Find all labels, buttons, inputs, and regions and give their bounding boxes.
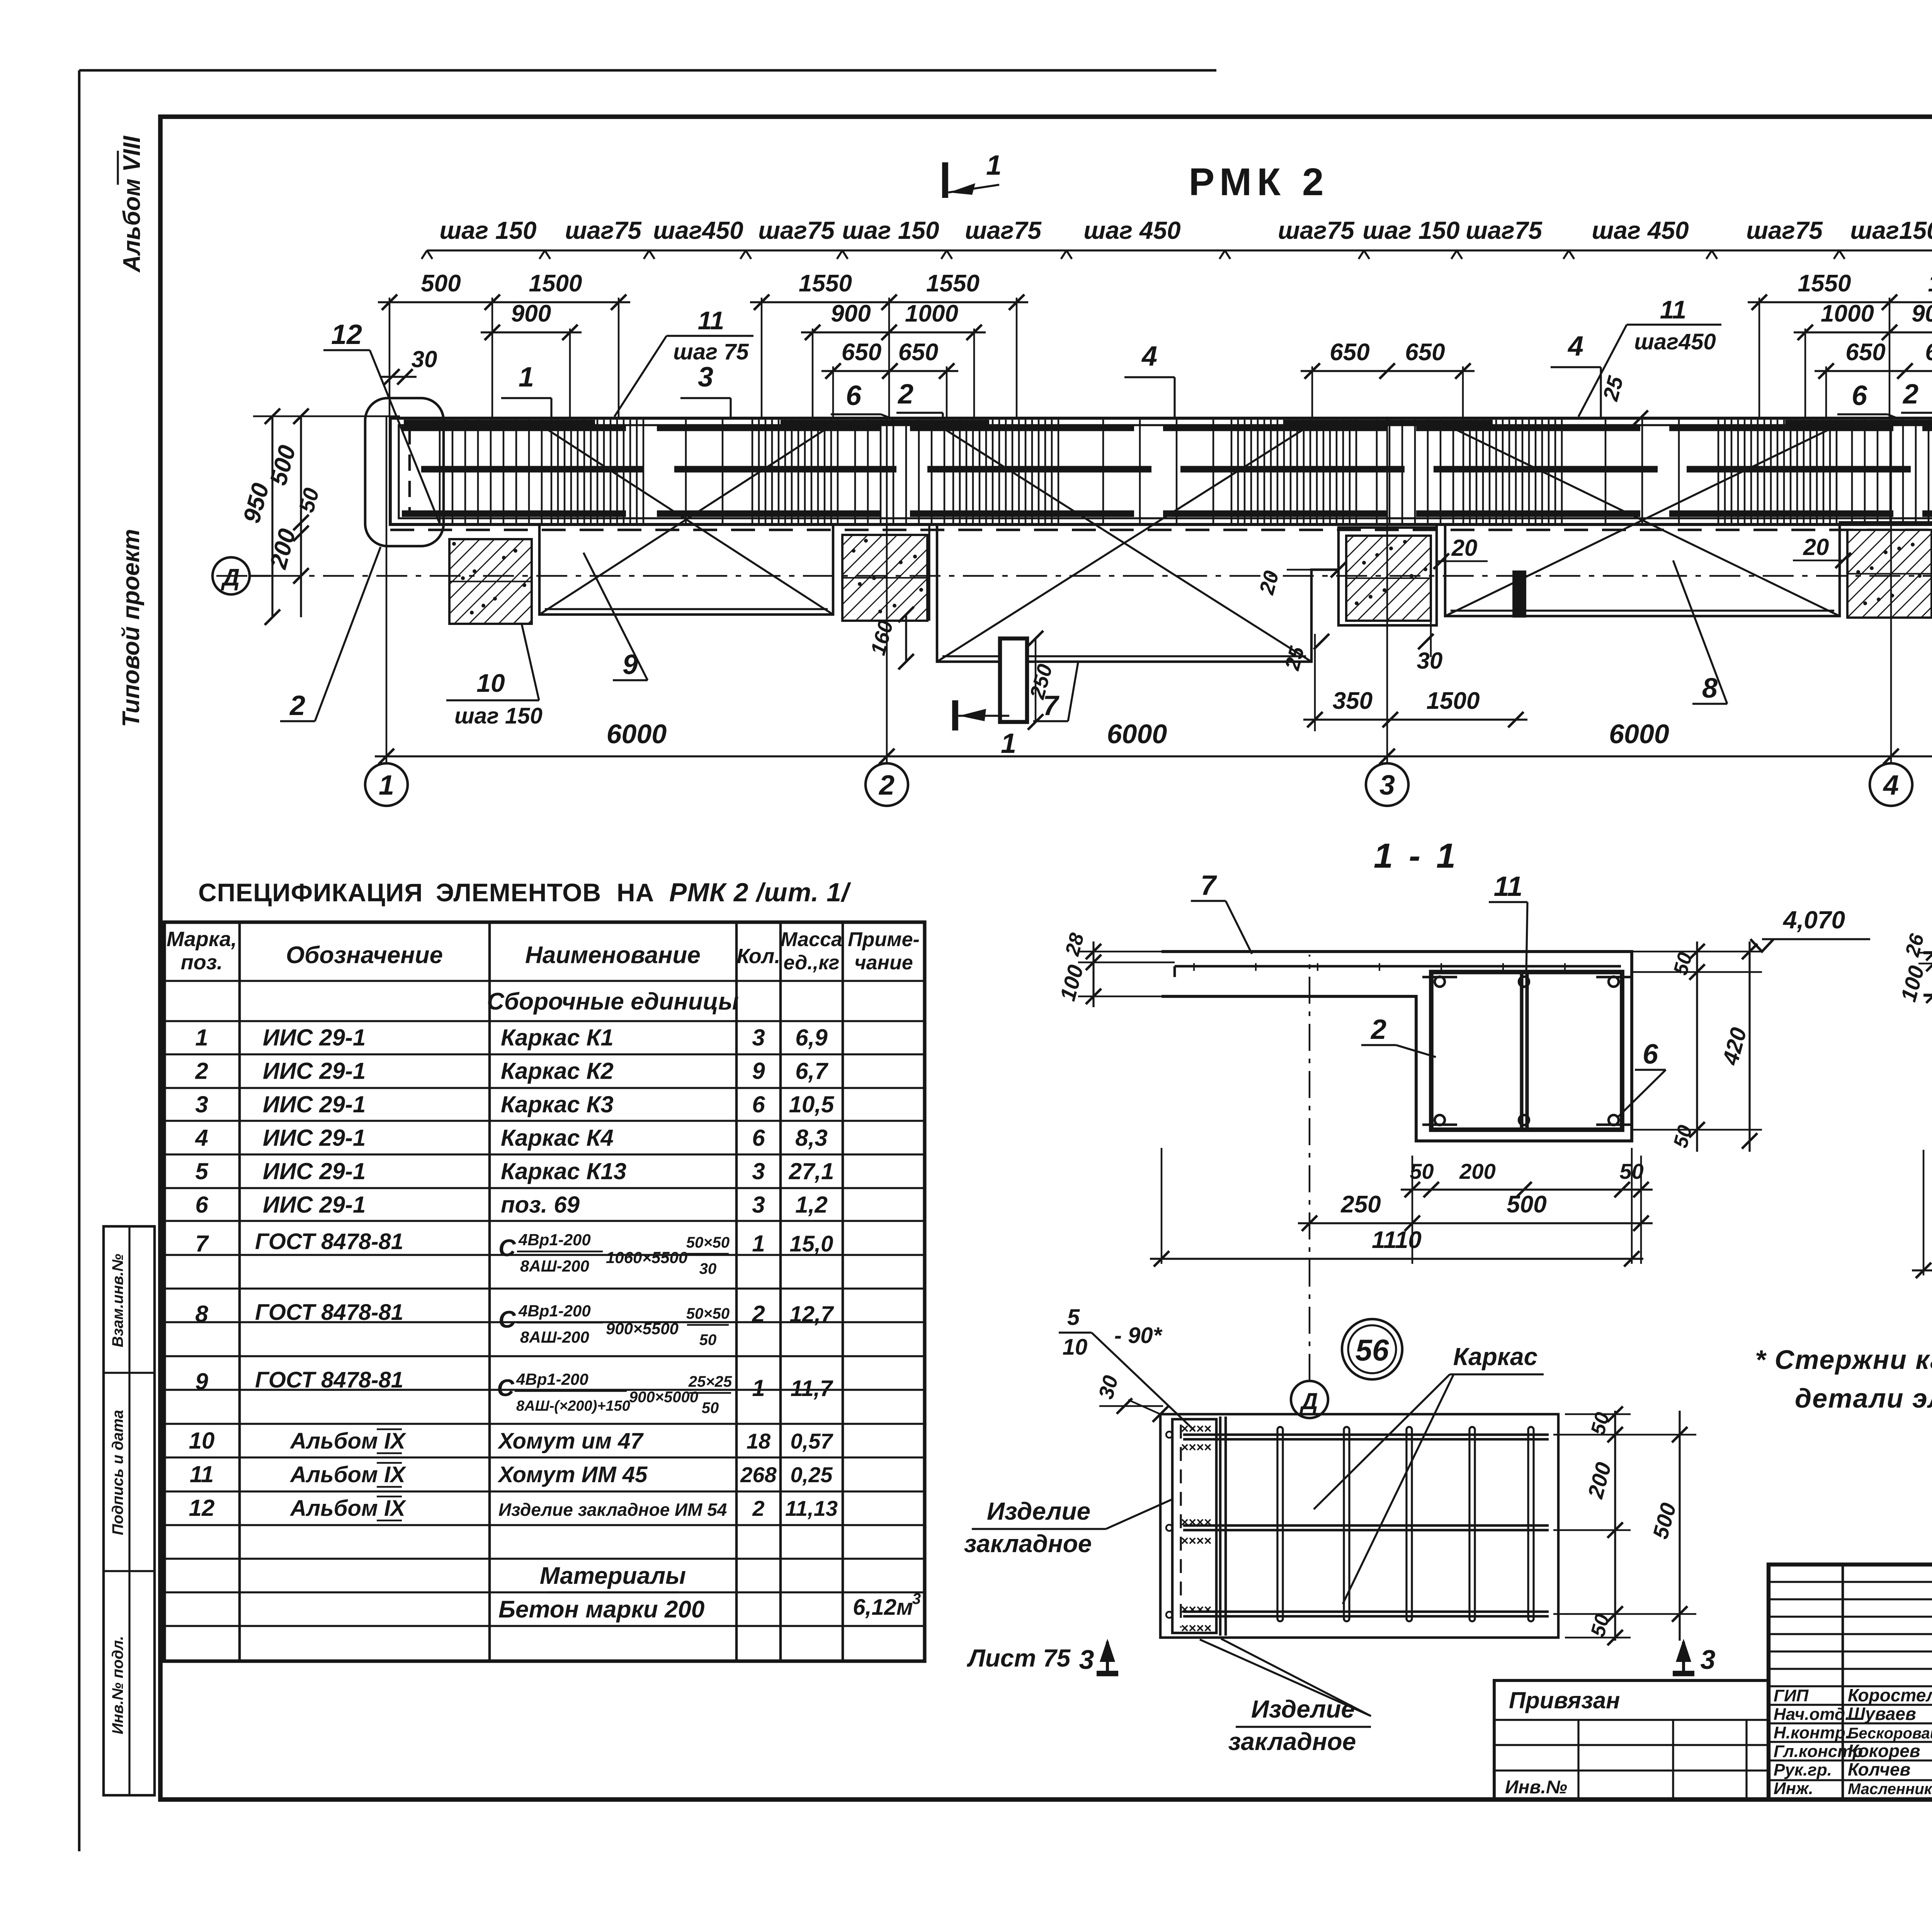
svg-text:ГОСТ 8478-81: ГОСТ 8478-81 xyxy=(255,1229,403,1254)
svg-text:закладное: закладное xyxy=(964,1530,1092,1558)
svg-text:Каркас К1: Каркас К1 xyxy=(501,1025,614,1050)
node 56 concrete outline xyxy=(1160,1414,1558,1638)
slot right of pad3 xyxy=(1514,572,1525,616)
svg-text:650: 650 xyxy=(1330,339,1369,366)
svg-text:12: 12 xyxy=(331,319,362,350)
svg-text:шаг 75: шаг 75 xyxy=(673,339,749,364)
pad P4 step outline xyxy=(1840,522,1932,616)
svg-text:* Стержни каркаса приварить: * Стержни каркаса приварить к уголку зак… xyxy=(1755,1345,1932,1375)
svg-text:2: 2 xyxy=(195,1058,208,1084)
opening O3 cross brace xyxy=(1445,424,1840,616)
svg-text:4,070: 4,070 xyxy=(1782,906,1845,934)
svg-text:50: 50 xyxy=(699,1331,717,1348)
svg-text:268: 268 xyxy=(740,1462,777,1487)
support pad P2 hatched xyxy=(842,535,927,621)
svg-text:30: 30 xyxy=(412,346,437,372)
svg-text:1: 1 xyxy=(379,770,394,801)
opening O2 cross brace xyxy=(937,424,1311,662)
svg-text:4Вр1-200: 4Вр1-200 xyxy=(518,1302,591,1320)
grid circle 1 xyxy=(365,763,408,806)
svg-text:6: 6 xyxy=(752,1125,765,1151)
dimension row 350-1500 at grid 3 xyxy=(1303,718,1527,720)
beam bottom dashed axis xyxy=(390,529,1932,531)
svg-text:8АШ-(×200)+150: 8АШ-(×200)+150 xyxy=(516,1398,630,1414)
svg-text:Каркас К2: Каркас К2 xyxy=(501,1058,614,1084)
svg-text:Материалы: Материалы xyxy=(540,1563,686,1589)
svg-text:шаг75: шаг75 xyxy=(565,216,642,244)
svg-text:Н.контр.: Н.контр. xyxy=(1774,1723,1850,1742)
svg-text:××××: ×××× xyxy=(1181,1602,1211,1617)
svg-text:10: 10 xyxy=(476,669,505,697)
dim row D 650/650 at grid 4 xyxy=(1815,370,1932,372)
svg-text:шаг 450: шаг 450 xyxy=(1592,216,1689,244)
svg-text:7: 7 xyxy=(195,1231,209,1256)
svg-text:ИИС 29-1: ИИС 29-1 xyxy=(263,1158,366,1184)
svg-text:27,1: 27,1 xyxy=(789,1158,834,1184)
svg-text:50: 50 xyxy=(1410,1159,1434,1183)
grid circle 3 xyxy=(1366,763,1408,806)
svg-text:Каркас К13: Каркас К13 xyxy=(501,1158,626,1184)
stirrup verticals xyxy=(439,420,441,523)
svg-text:ГОСТ 8478-81: ГОСТ 8478-81 xyxy=(255,1367,403,1393)
svg-text:Приме-: Приме- xyxy=(848,928,920,951)
svg-text:шаг 450: шаг 450 xyxy=(1083,216,1180,244)
svg-text:4: 4 xyxy=(195,1125,208,1151)
svg-text:ГИП: ГИП xyxy=(1774,1686,1809,1705)
svg-text:детали электродами Э 50А ГО: детали электродами Э 50А ГОСТ 9467-75 xyxy=(1795,1383,1932,1413)
svg-text:Альбом IX: Альбом IX xyxy=(289,1496,406,1521)
svg-text:900×5500: 900×5500 xyxy=(606,1319,679,1338)
slot in opening O2 bottom xyxy=(1000,638,1027,722)
svg-text:1500: 1500 xyxy=(529,270,582,297)
column grid lines xyxy=(386,417,388,763)
title block left grid rows xyxy=(1769,1581,1932,1583)
svg-text:4Вр1-200: 4Вр1-200 xyxy=(518,1231,591,1249)
svg-text:1000: 1000 xyxy=(905,300,958,327)
svg-text:9: 9 xyxy=(195,1369,208,1394)
beam outline inner line xyxy=(399,425,1932,518)
svg-text:2: 2 xyxy=(289,690,305,721)
svg-text:4: 4 xyxy=(1567,331,1583,362)
svg-text:2: 2 xyxy=(752,1496,764,1520)
svg-text:10: 10 xyxy=(189,1428,215,1454)
svg-text:Инв.№: Инв.№ xyxy=(1505,1777,1567,1798)
section 1-1 left dims 28/100 xyxy=(1092,941,1094,1007)
svg-text:шаг75: шаг75 xyxy=(965,216,1042,244)
svg-text:900×5000: 900×5000 xyxy=(629,1389,698,1406)
svg-text:Коростелев: Коростелев xyxy=(1848,1685,1932,1705)
svg-text:5: 5 xyxy=(195,1158,209,1184)
title block column lines xyxy=(1842,1565,1844,1800)
axis D circle at beam xyxy=(213,557,250,594)
dim row B right 1550/1550 xyxy=(1748,301,1932,303)
svg-text:500: 500 xyxy=(1507,1191,1546,1218)
svg-text:2: 2 xyxy=(752,1301,765,1327)
opening O2 outline xyxy=(937,524,1437,662)
section 1-1 cage hooks xyxy=(1422,976,1457,979)
svg-text:2: 2 xyxy=(897,379,913,410)
svg-text:7: 7 xyxy=(1201,870,1217,901)
dim row C left 900 xyxy=(481,331,582,333)
section 1-1 axis D circle xyxy=(1291,1381,1328,1418)
svg-text:Привязан: Привязан xyxy=(1509,1687,1620,1713)
section 2-2 concrete outline xyxy=(1923,953,1932,1134)
svg-text:××××: ×××× xyxy=(1181,1621,1211,1636)
extension lines above beam xyxy=(389,298,391,417)
grid circle 4 xyxy=(1870,763,1912,806)
svg-text:3: 3 xyxy=(1079,1645,1094,1675)
node 56 cage vertical bars xyxy=(1219,1416,1222,1636)
node 56 right dims 50/200/500/50 xyxy=(1614,1411,1616,1641)
svg-text:Д: Д xyxy=(221,564,240,591)
svg-text:1: 1 xyxy=(752,1231,765,1256)
svg-text:1060×5500: 1060×5500 xyxy=(606,1248,687,1267)
section 2-2 bottom dim 950 xyxy=(1912,1269,1932,1271)
svg-text:6,9: 6,9 xyxy=(795,1025,828,1050)
svg-text:Каркас К4: Каркас К4 xyxy=(501,1125,614,1151)
svg-text:××××: ×××× xyxy=(1181,1440,1211,1455)
section mark 1 bottom xyxy=(952,700,958,730)
svg-text:650: 650 xyxy=(1845,339,1885,366)
svg-text:Типовой проект: Типовой проект xyxy=(118,529,145,727)
svg-text:Колчев: Колчев xyxy=(1848,1759,1910,1779)
svg-text:Подпись и дата: Подпись и дата xyxy=(109,1410,126,1535)
svg-text:11: 11 xyxy=(1660,295,1687,324)
svg-text:чание: чание xyxy=(854,952,913,974)
svg-text:9: 9 xyxy=(752,1058,765,1084)
left vertical dims 950/500/50/200 xyxy=(271,416,273,617)
svg-text:1000: 1000 xyxy=(1821,300,1874,327)
section 1-1 stirrup cage xyxy=(1431,972,1622,1130)
svg-text:0,25: 0,25 xyxy=(791,1462,833,1487)
svg-text:50: 50 xyxy=(702,1399,719,1416)
svg-text:шаг450: шаг450 xyxy=(653,216,743,244)
title block left extension xyxy=(1494,1680,1769,1800)
svg-text:Хомут ИМ 45: Хомут ИМ 45 xyxy=(497,1462,648,1487)
section 1-1 slab top rebar xyxy=(1175,965,1621,968)
svg-text:Д: Д xyxy=(1299,1388,1318,1414)
sheet outer trim border left xyxy=(78,70,81,1851)
svg-text:10,5: 10,5 xyxy=(789,1091,835,1117)
svg-text:3: 3 xyxy=(912,1590,921,1607)
section 1-1 cage corner bars xyxy=(1435,977,1445,987)
svg-text:Кокорев: Кокорев xyxy=(1848,1741,1920,1761)
svg-text:Взам.инв.№: Взам.инв.№ xyxy=(109,1254,126,1347)
svg-text:8,3: 8,3 xyxy=(795,1125,827,1151)
svg-text:Наименование: Наименование xyxy=(525,942,701,969)
svg-text:6: 6 xyxy=(1852,380,1867,411)
svg-text:11: 11 xyxy=(698,306,724,335)
svg-text:шаг 150: шаг 150 xyxy=(842,216,939,244)
svg-text:18: 18 xyxy=(747,1429,771,1453)
svg-text:650: 650 xyxy=(842,339,881,366)
svg-text:поз.: поз. xyxy=(181,951,223,974)
extra support-zone top bars xyxy=(404,420,595,424)
svg-text:ИИС 29-1: ИИС 29-1 xyxy=(263,1091,366,1117)
svg-text:ИИС 29-1: ИИС 29-1 xyxy=(263,1025,366,1050)
svg-text:11: 11 xyxy=(190,1461,214,1487)
section 1-1 bottom dims 250/500 xyxy=(1298,1222,1653,1224)
svg-text:3: 3 xyxy=(752,1025,765,1050)
svg-text:1: 1 xyxy=(519,362,534,393)
sheet outer trim border top xyxy=(79,69,1216,72)
svg-text:4: 4 xyxy=(1141,341,1157,372)
section 1-1 bottom dim 1110 xyxy=(1150,1258,1643,1260)
svg-text:Сборочные единицы: Сборочные единицы xyxy=(487,988,739,1015)
top longitudinal rebar row xyxy=(402,425,626,431)
svg-text:Обозначение: Обозначение xyxy=(286,942,443,969)
svg-text:12: 12 xyxy=(189,1495,215,1521)
svg-text:650: 650 xyxy=(1405,339,1445,366)
svg-text:поз. 69: поз. 69 xyxy=(501,1192,580,1218)
svg-text:ИИС 29-1: ИИС 29-1 xyxy=(263,1058,366,1084)
section 1-1 concrete outline xyxy=(1162,952,1632,1141)
svg-text:Хомут им 47: Хомут им 47 xyxy=(497,1428,644,1454)
svg-text:1500: 1500 xyxy=(1427,688,1480,714)
svg-text:шаг150: шаг150 xyxy=(1850,216,1932,244)
svg-text:6: 6 xyxy=(846,380,862,411)
svg-text:шаг75: шаг75 xyxy=(1278,216,1355,244)
svg-text:5: 5 xyxy=(1067,1305,1080,1330)
svg-text:шаг 150: шаг 150 xyxy=(1362,216,1459,244)
node 56 embedded plate xyxy=(1172,1419,1216,1633)
svg-text:20: 20 xyxy=(1451,535,1478,561)
title block outline xyxy=(1769,1565,1932,1800)
svg-text:3: 3 xyxy=(195,1091,208,1117)
svg-text:Изделие закладное ИМ 54: Изделие закладное ИМ 54 xyxy=(498,1500,727,1520)
section mark 3 right xyxy=(1682,1642,1685,1674)
opening O3 outline xyxy=(1435,616,1437,625)
svg-text:С: С xyxy=(498,1235,516,1262)
svg-text:10: 10 xyxy=(1063,1335,1088,1360)
svg-text:9: 9 xyxy=(622,649,638,680)
dim 30 at left end xyxy=(380,376,417,378)
svg-text:Бетон марки 200: Бетон марки 200 xyxy=(498,1596,704,1623)
node 56 stirrups xyxy=(1277,1427,1283,1621)
svg-text:3: 3 xyxy=(752,1192,765,1218)
beam outline xyxy=(390,418,1932,524)
pad P3 formwork offset outline xyxy=(1338,528,1437,570)
svg-text:1: 1 xyxy=(1001,728,1016,759)
svg-text:Каркас: Каркас xyxy=(1453,1343,1537,1371)
svg-text:Рук.гр.: Рук.гр. xyxy=(1774,1760,1832,1779)
svg-text:4: 4 xyxy=(1883,770,1899,801)
svg-text:1550: 1550 xyxy=(1928,270,1932,297)
svg-text:1: 1 xyxy=(986,150,1002,181)
support pad P3 hatched xyxy=(1346,536,1431,621)
svg-text:Кол.: Кол. xyxy=(737,945,781,968)
svg-text:900: 900 xyxy=(831,300,871,327)
svg-text:2: 2 xyxy=(1902,379,1918,410)
svg-text:шаг75: шаг75 xyxy=(758,216,835,244)
svg-text:С: С xyxy=(497,1375,515,1401)
svg-text:1110: 1110 xyxy=(1372,1227,1422,1253)
pad P2 step verticals xyxy=(928,524,930,621)
svg-text:200: 200 xyxy=(1459,1159,1495,1183)
spec table grid xyxy=(164,922,925,1661)
svg-text:1550: 1550 xyxy=(1798,270,1851,297)
node 56 bubble xyxy=(1342,1319,1402,1379)
svg-text:1550: 1550 xyxy=(799,270,852,297)
svg-text:ед.,кг: ед.,кг xyxy=(784,952,840,974)
svg-text:56: 56 xyxy=(1355,1333,1389,1367)
svg-text:6000: 6000 xyxy=(607,719,667,749)
dim row B left 500/1500 xyxy=(378,301,630,303)
svg-text:900: 900 xyxy=(511,300,551,327)
span dimension line 6000s xyxy=(375,755,1932,757)
svg-text:РМК 2 /шт. 1/: РМК 2 /шт. 1/ xyxy=(669,878,851,907)
svg-text:11,13: 11,13 xyxy=(785,1496,838,1520)
svg-text:шаг450: шаг450 xyxy=(1634,329,1716,354)
svg-text:Инв.№ подл.: Инв.№ подл. xyxy=(109,1636,126,1735)
svg-text:900: 900 xyxy=(1912,300,1932,327)
svg-text:1: 1 xyxy=(195,1025,208,1050)
svg-text:ЭЛЕМЕНТОВ: ЭЛЕМЕНТОВ xyxy=(436,878,601,907)
svg-text:1550: 1550 xyxy=(926,270,980,297)
svg-text:Масленников: Масленников xyxy=(1848,1781,1932,1798)
svg-text:1 - 1: 1 - 1 xyxy=(1374,837,1459,875)
svg-text:Нач.отд.: Нач.отд. xyxy=(1774,1705,1850,1724)
svg-text:8АШ-200: 8АШ-200 xyxy=(520,1257,589,1275)
opening O1 outline xyxy=(539,524,833,615)
svg-text:20: 20 xyxy=(1803,534,1829,560)
svg-text:6000: 6000 xyxy=(1609,719,1669,749)
section mark 1 top xyxy=(942,162,948,198)
dim row B mid 1550/1550 xyxy=(750,301,1028,303)
svg-text:6: 6 xyxy=(752,1091,765,1117)
svg-text:Бескоровайнук: Бескоровайнук xyxy=(1848,1725,1932,1742)
dim row C right 1000/900 xyxy=(1794,331,1932,333)
margin stamp strip xyxy=(104,1226,155,1795)
dim 160 at opening O2 xyxy=(905,615,907,662)
support pad P1 hatched xyxy=(449,539,532,624)
node 56 horizontal bars xyxy=(1183,1433,1549,1436)
svg-text:650: 650 xyxy=(1925,339,1932,366)
support pad P4 hatched xyxy=(1847,530,1932,618)
section 1-1 bottom dims 50/200/50 xyxy=(1401,1188,1653,1190)
svg-text:Масса: Масса xyxy=(781,928,842,951)
opening O1 cross brace xyxy=(539,424,833,615)
svg-text:××××: ×××× xyxy=(1181,1534,1211,1548)
svg-text:Альбом IX: Альбом IX xyxy=(289,1462,406,1487)
svg-text:3: 3 xyxy=(752,1158,765,1184)
svg-text:6: 6 xyxy=(1643,1039,1658,1070)
svg-text:Альбом VIII: Альбом VIII xyxy=(119,135,145,273)
bottom longitudinal rebar row xyxy=(402,511,626,517)
svg-text:С: С xyxy=(498,1306,516,1333)
svg-text:Лист 75: Лист 75 xyxy=(967,1644,1071,1672)
callout oval around left embedded plate xyxy=(365,398,444,546)
svg-text:СПЕЦИФИКАЦИЯ: СПЕЦИФИКАЦИЯ xyxy=(198,878,423,907)
section 1-1 right dims 50/420/50 xyxy=(1696,941,1698,1152)
svg-text:закладное: закладное xyxy=(1228,1728,1356,1755)
svg-text:РМК 2: РМК 2 xyxy=(1189,160,1329,204)
svg-text:11,7: 11,7 xyxy=(791,1376,833,1401)
svg-text:8: 8 xyxy=(195,1301,208,1327)
svg-text:1: 1 xyxy=(752,1375,765,1401)
svg-text:11: 11 xyxy=(1494,871,1523,902)
axis D dash-dot line xyxy=(216,575,1932,577)
embedded plate left end (pos.12) xyxy=(408,428,411,516)
svg-text:Каркас К3: Каркас К3 xyxy=(501,1091,614,1117)
svg-text:шаг 150: шаг 150 xyxy=(439,216,536,244)
svg-text:0,57: 0,57 xyxy=(791,1429,834,1453)
svg-text:6,12м: 6,12м xyxy=(853,1595,913,1620)
svg-text:ИИС 29-1: ИИС 29-1 xyxy=(263,1192,366,1218)
svg-text:6,7: 6,7 xyxy=(795,1058,828,1084)
svg-text:Шуваев: Шуваев xyxy=(1848,1704,1916,1724)
svg-text:15,0: 15,0 xyxy=(790,1231,833,1256)
svg-text:25×25: 25×25 xyxy=(688,1373,732,1390)
svg-text:30: 30 xyxy=(699,1260,717,1277)
svg-text:шаг75: шаг75 xyxy=(1466,216,1543,244)
svg-text:50×50: 50×50 xyxy=(686,1234,730,1251)
svg-text:50×50: 50×50 xyxy=(686,1305,730,1322)
svg-text:Альбом IX: Альбом IX xyxy=(289,1428,406,1454)
svg-text:350: 350 xyxy=(1333,688,1372,714)
svg-text:2: 2 xyxy=(878,770,895,801)
svg-text:250: 250 xyxy=(1340,1191,1381,1218)
dim row D mid 650/650 at grid 2 xyxy=(821,370,958,372)
svg-text:Марка,: Марка, xyxy=(167,928,237,951)
stirrup spacing bracket line xyxy=(427,249,1932,251)
svg-text:6000: 6000 xyxy=(1107,719,1167,749)
svg-text:шаг 150: шаг 150 xyxy=(454,703,543,729)
svg-text:12,7: 12,7 xyxy=(790,1302,835,1327)
dim row C mid 900/1000 xyxy=(801,331,986,333)
section 1-1 cage middle bar xyxy=(1520,972,1523,1130)
svg-text:3: 3 xyxy=(1701,1645,1716,1675)
svg-text:1,2: 1,2 xyxy=(795,1192,827,1218)
svg-text:6: 6 xyxy=(195,1192,208,1218)
svg-text:4Вр1-200: 4Вр1-200 xyxy=(516,1370,588,1388)
svg-text:ИИС 29-1: ИИС 29-1 xyxy=(263,1125,366,1151)
svg-text:××××: ×××× xyxy=(1181,1515,1211,1530)
svg-text:ГОСТ 8478-81: ГОСТ 8478-81 xyxy=(255,1300,403,1325)
svg-text:2: 2 xyxy=(1370,1014,1386,1045)
svg-text:8АШ-200: 8АШ-200 xyxy=(520,1328,589,1346)
svg-text:НА: НА xyxy=(617,878,654,907)
svg-text:500: 500 xyxy=(421,270,461,297)
svg-text:- 90*: - 90* xyxy=(1114,1323,1163,1348)
dim row D 650/650 at grid 3 xyxy=(1301,370,1475,372)
svg-text:650: 650 xyxy=(898,339,938,366)
svg-text:шаг75: шаг75 xyxy=(1746,216,1823,244)
grid circle 2 xyxy=(866,763,908,806)
svg-text:Инж.: Инж. xyxy=(1774,1779,1813,1798)
svg-text:3: 3 xyxy=(698,362,713,393)
middle longitudinal rebar row xyxy=(421,466,643,473)
svg-text:3: 3 xyxy=(1379,770,1395,801)
svg-text:30: 30 xyxy=(1417,648,1443,674)
svg-text:8: 8 xyxy=(1702,673,1718,704)
svg-text:Изделие: Изделие xyxy=(987,1497,1090,1525)
